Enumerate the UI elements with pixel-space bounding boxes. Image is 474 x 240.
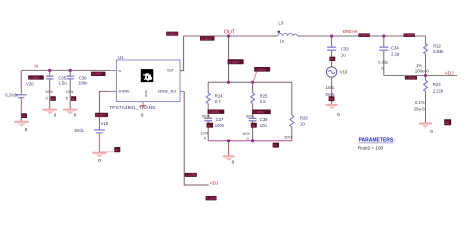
capacitor C37 (204, 117, 224, 128)
current probe box V20 (21, 113, 27, 118)
capacitor C36 (67, 75, 89, 85)
svg-text:5.000V: 5.000V (96, 113, 107, 117)
svg-text:5Vdc: 5Vdc (75, 128, 84, 133)
current probe box V18 (114, 147, 120, 152)
wire In net from V20 to U1 IN (21, 69, 109, 71)
svg-text:1.210V: 1.210V (185, 173, 196, 177)
svg-text:0.7: 0.7 (215, 99, 221, 104)
svg-text:R25: R25 (260, 93, 268, 98)
wire C34 branch (383, 36, 385, 76)
svg-text:C33: C33 (341, 47, 349, 52)
svg-text:SHDNB: SHDNB (118, 90, 129, 94)
svg-text:0.1%: 0.1% (415, 100, 425, 105)
ground C36 (64, 110, 77, 118)
svg-text:1u: 1u (341, 53, 346, 58)
svg-text:0A: 0A (22, 114, 26, 118)
svg-text:10: 10 (300, 122, 305, 127)
bias label BREAK 2 (404, 33, 416, 37)
resistor R26 (290, 115, 308, 127)
svg-text:1Vac: 1Vac (326, 85, 335, 90)
node junction bottomrail-C38 (251, 139, 254, 142)
wire V18 bottom stem (98, 134, 100, 153)
svg-text:2.2p: 2.2p (391, 51, 400, 56)
svg-text:10u: 10u (260, 123, 268, 128)
svg-text:BREAK: BREAK (343, 29, 358, 34)
svg-text:C37: C37 (216, 117, 224, 122)
svg-text:Rout2 = 100: Rout2 = 100 (358, 146, 384, 151)
svg-text:0A: 0A (72, 97, 76, 101)
wire OUT top run to L3 (184, 35, 278, 37)
svg-text:0A: 0A (207, 124, 211, 128)
svg-text:ADJ: ADJ (210, 180, 218, 185)
svg-text:1.645V: 1.645V (254, 110, 265, 114)
svg-text:L3: L3 (278, 21, 283, 26)
svg-text:TPS7A4501_TRANS: TPS7A4501_TRANS (109, 105, 155, 111)
pin stub U1 GND (142, 102, 144, 106)
current probe box rail right of C38 (273, 143, 279, 148)
svg-text:1.210V: 1.210V (405, 76, 416, 80)
bias label OUT wire (200, 36, 215, 41)
node junction ADJ-R22R23 (424, 74, 427, 77)
svg-text:6.2Vdc: 6.2Vdc (5, 92, 18, 97)
svg-text:100n: 100n (78, 80, 88, 85)
bias label OUT drop (228, 59, 244, 64)
parameters block (358, 138, 395, 151)
wire V20 top stem (20, 70, 22, 94)
bias label ADJ riser (185, 173, 197, 177)
svg-text:3.300V: 3.300V (256, 68, 267, 72)
node junction In-C35 (48, 69, 51, 72)
bias label V20 node (28, 75, 44, 80)
pin stub U1 IN (110, 70, 117, 72)
bias label V18 SHDNB (95, 113, 108, 118)
wire C36 branch (69, 70, 71, 109)
svg-text:100n: 100n (215, 123, 225, 128)
capacitor C35 (46, 75, 67, 85)
wire ADJ right run (384, 75, 457, 77)
svg-text:0A: 0A (273, 144, 277, 148)
op-amp U1 regulator TPS7A4501 (109, 55, 180, 111)
bias label ADJ end (206, 196, 218, 201)
svg-text:0: 0 (430, 129, 433, 134)
svg-text:GND: GND (144, 90, 148, 98)
wire R22 R23 branch (425, 54, 427, 123)
svg-text:0: 0 (232, 160, 235, 165)
wire R24 C37 branch (207, 82, 209, 141)
bias label R24 C37 node (208, 110, 225, 115)
capacitor C34 (378, 45, 400, 70)
svg-text:V18: V18 (101, 121, 109, 126)
node junction OUT drop (227, 34, 230, 37)
capacitor C33 (327, 47, 349, 58)
svg-text:V20: V20 (26, 81, 34, 86)
current probe box V19 lower (329, 96, 335, 101)
svg-text:V19: V19 (340, 69, 348, 74)
svg-text:0: 0 (337, 112, 340, 117)
node junction C33 tap (330, 34, 333, 37)
wire OUT drop to divider rail (228, 36, 230, 82)
pin stub U1 SENSE_ADJ (180, 90, 184, 92)
node junction In-C36 (69, 69, 72, 72)
svg-text:0A: 0A (330, 57, 334, 61)
svg-text:OUT: OUT (224, 30, 236, 36)
svg-text:1.5u: 1.5u (58, 80, 67, 85)
resistor R24 (206, 93, 223, 104)
svg-text:3.300V: 3.300V (201, 37, 212, 41)
wire R25 C38 branch (252, 82, 254, 141)
voltage source V20 (5, 81, 34, 97)
svg-text:6.200V: 6.200V (29, 76, 40, 80)
node junction rail-drop (227, 81, 230, 84)
svg-text:0A: 0A (115, 148, 119, 152)
current probe box C38 (251, 123, 257, 128)
svg-text:0.5: 0.5 (260, 99, 266, 104)
voltage source V18 (75, 121, 109, 133)
wire SENSE_ADJ riser down to ADJ label (184, 91, 209, 185)
pin stub U1 SHDNB (110, 90, 117, 92)
svg-text:50%: 50% (284, 134, 292, 139)
wire V18 probe leader (99, 151, 114, 153)
svg-text:1.210V: 1.210V (206, 197, 217, 201)
node junction C34 tap (382, 34, 385, 37)
svg-text:25e-6: 25e-6 (414, 106, 426, 111)
bias label BREAK 1 (358, 33, 370, 37)
svg-text:R24: R24 (215, 93, 223, 98)
svg-text:50%: 50% (202, 114, 210, 119)
svg-text:6.200V: 6.200V (92, 72, 103, 76)
svg-text:3.300V: 3.300V (167, 32, 178, 36)
bias label OUT corner (166, 32, 178, 36)
svg-text:0: 0 (141, 113, 144, 118)
capacitor C38 (249, 117, 268, 128)
svg-text:C34: C34 (391, 45, 399, 50)
svg-text:100e-6: 100e-6 (415, 68, 430, 73)
ground V20 (15, 122, 28, 132)
svg-text:2.21k: 2.21k (433, 88, 444, 93)
current probe box C36 (71, 96, 76, 101)
svg-text:ADJ: ADJ (445, 71, 454, 76)
svg-text:50%: 50% (246, 114, 254, 119)
bias label R25 top leader (253, 68, 258, 82)
svg-text:0: 0 (54, 112, 57, 117)
ground V18 (93, 153, 106, 163)
svg-text:U1: U1 (118, 55, 124, 60)
svg-text:3.300V: 3.300V (229, 60, 240, 64)
ground U1 GND 0 (140, 106, 146, 118)
wire V20 bottom stem to ground (20, 98, 22, 121)
svg-text:OUT: OUT (167, 69, 174, 73)
svg-text:0A: 0A (329, 97, 333, 101)
svg-text:10%: 10% (45, 89, 53, 94)
resistor R22 (415, 43, 445, 73)
svg-text:0: 0 (98, 158, 101, 163)
svg-text:In: In (34, 64, 38, 70)
ground V19 (326, 105, 340, 117)
svg-text:0: 0 (74, 112, 77, 117)
current probe box C37 (207, 123, 214, 128)
bias label In wire (91, 72, 106, 77)
svg-text:1%: 1% (416, 63, 422, 68)
svg-text:1u: 1u (280, 39, 285, 44)
node junction rail-R25 (251, 81, 254, 84)
wire R26 branch (291, 82, 293, 141)
wire divider bottom rail (208, 140, 292, 142)
wire divider top rail (208, 81, 292, 83)
wire U1 OUT riser to top run (180, 36, 184, 71)
svg-text:10%: 10% (66, 89, 74, 94)
inductor L3 (278, 21, 298, 44)
wire C33 V19 branch (331, 36, 333, 104)
svg-text:0.25p: 0.25p (378, 60, 389, 65)
svg-text:0A: 0A (251, 124, 255, 128)
wire mid ground stem (228, 141, 230, 156)
ground C35 (43, 110, 56, 118)
svg-text:3.300V: 3.300V (359, 34, 370, 38)
bias label ADJ right wire (405, 76, 417, 80)
svg-text:SENSE_ADJ: SENSE_ADJ (158, 90, 177, 94)
svg-text:R22: R22 (433, 43, 441, 48)
svg-text:C38: C38 (260, 117, 268, 122)
current probe box C35 (50, 96, 55, 101)
svg-text:R23: R23 (433, 82, 441, 87)
ground R23 (420, 124, 433, 135)
node junction bottomrail-gnd (227, 139, 230, 142)
voltage source V19 (326, 67, 348, 97)
resistor R23 (414, 80, 444, 111)
svg-text:3.300V: 3.300V (404, 34, 415, 38)
wire SHDNB to V18 (99, 91, 109, 129)
svg-text:IN: IN (118, 69, 121, 73)
ground divider mid (224, 156, 235, 164)
svg-text:0A: 0A (51, 97, 55, 101)
svg-text:3.83k: 3.83k (433, 49, 444, 54)
current probe box R23 ground (444, 119, 451, 125)
wire C35 branch (49, 70, 51, 109)
svg-text:R26: R26 (300, 115, 308, 120)
wire L3 to right corner down to R22 (298, 36, 426, 44)
bias label R25 C38 node (252, 110, 270, 115)
current probe box V19 upper (329, 57, 335, 62)
svg-text:0: 0 (25, 127, 28, 132)
resistor R25 (251, 93, 268, 104)
svg-text:1.645V: 1.645V (209, 110, 220, 114)
